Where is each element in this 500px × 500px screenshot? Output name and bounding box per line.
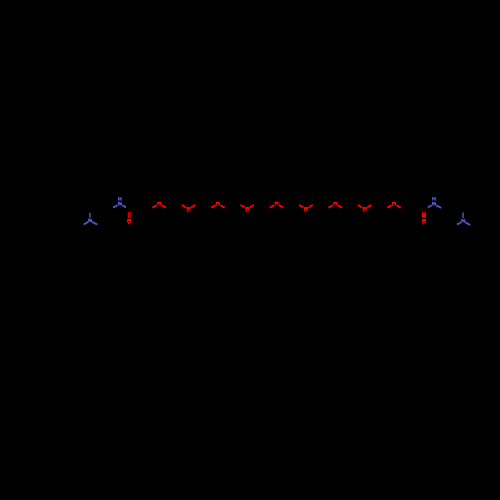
bond N2 to left methyl (half-bond) [457, 222, 461, 224]
ether oxygen O7 (top) label and half-bonds [329, 202, 343, 208]
carbonyl C=O double bond (right) [422, 212, 426, 218]
bond N(right amide) to carbonyl (half-bond) [428, 205, 432, 207]
bond N1 to C3 (vertical half-bond) [89, 213, 91, 218]
ether oxygen O5 (top) label and half-bonds [270, 202, 284, 208]
amide hydrogen H (right) label [432, 197, 436, 201]
ether oxygen O3 (top) label and half-bonds [211, 202, 225, 208]
ether oxygen O1 (top) label and half-bonds [152, 202, 166, 208]
carbonyl oxygen O (right) label [422, 219, 426, 225]
bond N(left amide) to carbonyl C1' (half-bond) [122, 205, 126, 207]
bond N2 to C3' (vertical half-bond) [462, 213, 464, 219]
carbonyl C=O double bond (left) [128, 212, 130, 218]
ether oxygen O4 (bottom) label and half-bonds [240, 205, 254, 212]
bond N(right amide) to C2' (half-bond) [436, 205, 441, 208]
ether oxygen O9 (top) label and half-bonds [387, 202, 401, 208]
bond N1 to left methyl (half-bond) [84, 222, 89, 225]
amide nitrogen N (right) label [432, 202, 436, 205]
amine nitrogen N1 label [88, 219, 92, 222]
carbonyl oxygen O (left) label [127, 219, 131, 224]
bond N2 to right methyl (half-bond) [465, 222, 470, 225]
amide hydrogen H (left) label [118, 197, 122, 201]
ether oxygen O8 (bottom) label and half-bonds [358, 205, 372, 212]
amide nitrogen N (left) label [118, 202, 122, 205]
amine nitrogen N2 label [461, 219, 465, 222]
ether oxygen O6 (bottom) label and half-bonds [299, 205, 313, 212]
bond N1 to right methyl (half-bond) [92, 222, 98, 225]
bond N(left amide) to C2 (half-bond) [113, 205, 117, 208]
ether oxygen O2 (bottom) label and half-bonds [182, 205, 196, 212]
